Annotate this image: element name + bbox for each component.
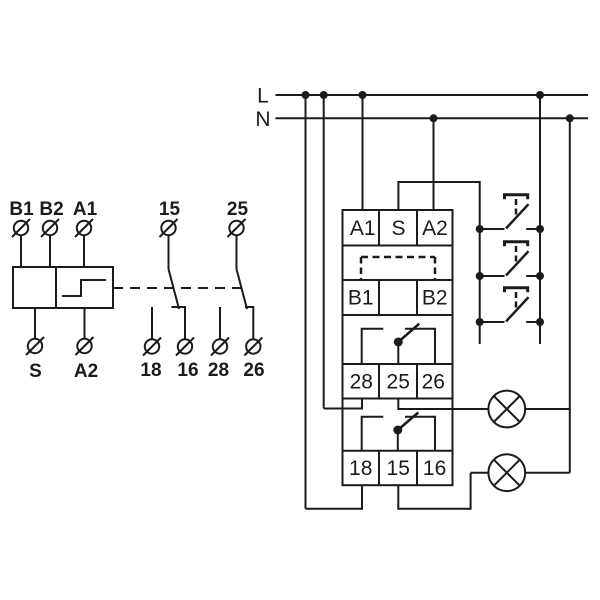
svg-text:16: 16 — [177, 360, 198, 381]
svg-text:25: 25 — [387, 371, 410, 394]
svg-text:B1: B1 — [348, 287, 374, 310]
svg-text:26: 26 — [243, 360, 264, 381]
svg-text:A1: A1 — [350, 217, 376, 240]
svg-text:25: 25 — [227, 199, 249, 220]
svg-text:S: S — [29, 361, 42, 382]
svg-text:18: 18 — [140, 360, 161, 381]
svg-text:16: 16 — [423, 457, 446, 480]
svg-text:N: N — [255, 108, 270, 131]
svg-text:A2: A2 — [422, 217, 448, 240]
svg-text:B1: B1 — [9, 199, 34, 220]
svg-text:S: S — [391, 217, 405, 240]
svg-text:A1: A1 — [73, 199, 98, 220]
svg-text:B2: B2 — [39, 199, 63, 220]
svg-text:18: 18 — [349, 457, 372, 480]
svg-text:26: 26 — [422, 371, 445, 394]
svg-text:15: 15 — [387, 457, 410, 480]
svg-text:B2: B2 — [422, 287, 448, 310]
svg-text:28: 28 — [350, 371, 373, 394]
svg-text:15: 15 — [159, 199, 181, 220]
svg-text:A2: A2 — [74, 361, 98, 382]
svg-text:L: L — [257, 85, 269, 108]
svg-text:28: 28 — [208, 360, 229, 381]
